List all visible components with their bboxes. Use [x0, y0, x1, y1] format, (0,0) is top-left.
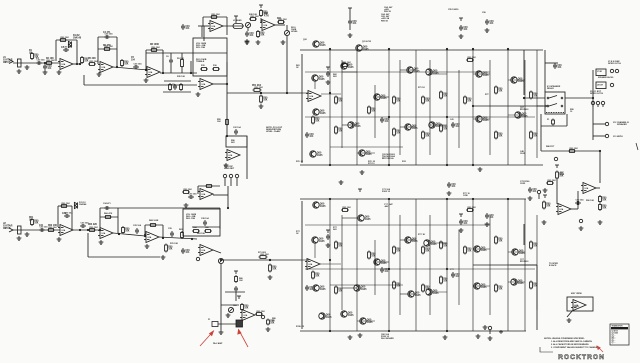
transistor Q12 [475, 116, 482, 122]
capacitor C28 [203, 220, 207, 226]
wire U7A fb top [58, 205, 72, 207]
wire U7B fb mid [100, 216, 118, 218]
wire cluster [221, 304, 239, 306]
resistor R62b [47, 229, 55, 232]
wire jog A11 [375, 96, 389, 98]
svg-text:U1A: U1A [244, 314, 248, 317]
svg-text:U1A: U1A [62, 229, 66, 232]
svg-text:C00 104: C00 104 [134, 62, 143, 65]
op-amp U4 driver A [306, 91, 321, 102]
power +15V [326, 230, 330, 233]
svg-text:R0010K: R0010K [168, 247, 173, 251]
svg-text:KEY VIEW: KEY VIEW [571, 293, 583, 295]
key view box [567, 297, 593, 311]
wire fx right vert [246, 136, 248, 179]
transistor Q13 [515, 112, 522, 118]
svg-text:ROCKTRON: ROCKTRON [558, 354, 604, 361]
svg-text:R71 1K: R71 1K [418, 87, 425, 89]
svg-text:U1A: U1A [202, 193, 206, 196]
svg-text:R0010K: R0010K [533, 94, 538, 98]
transistor Q18 [357, 215, 364, 221]
resistor R41 [552, 119, 555, 126]
svg-text:U1A: U1A [102, 232, 106, 235]
wire feedback bus top [146, 52, 227, 54]
node [227, 207, 229, 209]
svg-text:R2 10K: R2 10K [46, 58, 54, 60]
node [388, 198, 390, 200]
svg-text:Q15 MJ15003Q16 MJ15004MOTOROLA: Q15 MJ15003Q16 MJ15004MOTOROLA [382, 154, 396, 160]
jack J12 [229, 174, 232, 177]
wire U1B feedback left [97, 37, 99, 64]
wire monitor top [541, 150, 600, 152]
node [472, 198, 474, 200]
wire U2A feedback left [145, 50, 147, 69]
transistor Q1 [312, 41, 319, 47]
resistor R84 [393, 246, 396, 255]
wire jog B3 [430, 242, 447, 244]
wire drive A to power amp [227, 92, 302, 94]
resistor R37 [530, 131, 533, 140]
svg-text:U1A: U1A [264, 24, 268, 27]
wire drive B to power amp [221, 259, 302, 261]
resistor R30 [422, 131, 425, 140]
node [79, 229, 81, 231]
resistor R93 [530, 241, 533, 250]
capacitor C24b [104, 206, 110, 210]
svg-text:R0010K: R0010K [338, 129, 343, 133]
wire U1A out [73, 63, 81, 65]
wire to J12 [593, 123, 605, 125]
op-amp U6B [198, 189, 213, 200]
resistor R25 [335, 126, 338, 135]
plus mark [499, 330, 503, 334]
wire C6 top [170, 53, 172, 58]
jack J5 [596, 101, 599, 104]
jack J2 [615, 69, 618, 72]
svg-text:3. COMPONENT VALUES SUBJECT TO: 3. COMPONENT VALUES SUBJECT TO CHANGE [551, 346, 598, 349]
ground [326, 243, 331, 247]
wire jog B6 [342, 287, 357, 289]
node [446, 116, 448, 118]
capacitor C3 [63, 48, 69, 52]
transistor Q2 [355, 45, 362, 51]
transistor Q6 [475, 71, 482, 77]
wire R9 bot [181, 67, 183, 73]
wire jog A12 [357, 152, 375, 154]
transistor Q32 [319, 313, 326, 319]
wire vertical B x508 [507, 199, 509, 331]
capacitor C42 [326, 71, 330, 77]
capacitor C43 [326, 234, 330, 240]
svg-text:R90 10K: R90 10K [586, 200, 594, 202]
node [523, 97, 525, 99]
pot master [284, 30, 289, 35]
ground [99, 240, 104, 244]
node [118, 233, 120, 235]
ground [528, 196, 533, 200]
capacitor C11 [305, 132, 309, 138]
resistor R5 [88, 63, 96, 66]
title block line [540, 347, 553, 352]
wire input B [13, 229, 60, 231]
node [144, 235, 146, 237]
resistor R34 [495, 86, 498, 95]
capacitor C21 [39, 228, 45, 232]
svg-text:R0010K: R0010K [371, 254, 376, 258]
ground [281, 40, 286, 44]
op-amp U1B [98, 62, 113, 73]
wire remote stub2 [230, 178, 232, 186]
svg-text:R64 22K: R64 22K [88, 223, 97, 226]
resistor R83 [368, 251, 371, 260]
svg-text:R0010K: R0010K [125, 229, 130, 233]
IC box detail (red arrow target) [236, 320, 243, 327]
op-amp U7B [98, 228, 113, 239]
svg-text:R6 47K: R6 47K [103, 44, 111, 47]
power +15V [543, 195, 547, 198]
wire B bus right vert [219, 208, 221, 229]
node [388, 116, 390, 118]
wire vertical A x375 [374, 85, 376, 138]
wire U9A out [213, 250, 221, 253]
wire tone lower2 [163, 91, 191, 93]
svg-text:J7-8 8 OHMSPKR OUT A: J7-8 8 OHMSPKR OUT A [608, 61, 621, 65]
svg-text:R62 10K: R62 10K [48, 225, 57, 227]
svg-text:U1A: U1A [229, 154, 233, 157]
red annotation arrow 1 [200, 331, 214, 346]
svg-text:R0010K: R0010K [260, 33, 265, 37]
svg-text:U1A: U1A [102, 66, 106, 69]
capacitor C14 [485, 19, 489, 25]
resistor R48 [599, 203, 602, 211]
wire U8B fb left [144, 225, 146, 234]
wire jog A10 [508, 114, 525, 116]
capacitor C25 [135, 228, 139, 234]
fx box [226, 136, 247, 147]
svg-text:R00 10K: R00 10K [62, 203, 71, 205]
resistor R58 [205, 185, 213, 188]
capacitor C13 [459, 25, 463, 31]
svg-text:C22 104: C22 104 [233, 126, 241, 129]
capacitor C35 [485, 213, 489, 219]
wire A mid1 [305, 71, 490, 73]
svg-text:Q3 ...: Q3 ... [612, 334, 616, 336]
wire feedback return vert [83, 75, 85, 85]
resistor R47 [599, 195, 602, 203]
pot bias [228, 307, 233, 312]
wire C6 bot [170, 64, 172, 73]
svg-text:C25 104: C25 104 [133, 224, 142, 227]
ground [483, 325, 488, 329]
node [145, 69, 147, 71]
resistor R64 [88, 229, 96, 232]
node [190, 72, 192, 74]
capacitor C6 [169, 58, 173, 64]
wire remote stub3 [236, 178, 238, 186]
wire to U5A in [556, 178, 558, 204]
transistor Q23 [511, 249, 518, 255]
transistor Q5 [426, 69, 433, 75]
svg-text:C71 104R105 10: C71 104R105 10 [382, 188, 391, 193]
ground [57, 70, 62, 74]
capacitor C44 [234, 286, 238, 292]
svg-text:R0010K: R0010K [244, 306, 249, 310]
jack J4 [591, 101, 594, 104]
transistor Q9 [348, 122, 355, 128]
transistor Q12c [340, 311, 347, 317]
jack J16 [488, 326, 491, 329]
svg-text:C00 104: C00 104 [64, 45, 73, 48]
capacitor C4 [104, 35, 110, 39]
wire Q to U11 [314, 243, 316, 258]
wire U7B fb left [99, 208, 101, 230]
jack TP B [537, 190, 540, 193]
node [472, 164, 474, 166]
resistor R29 [422, 96, 425, 105]
resistor R95 [312, 271, 315, 280]
op-amp U8B [144, 232, 159, 243]
ground [443, 335, 448, 339]
jack J13 [235, 174, 238, 177]
svg-text:R00 10K: R00 10K [90, 227, 99, 229]
node [446, 164, 448, 166]
wire U2A out [160, 72, 197, 74]
svg-text:J7 8R: J7 8R [597, 71, 602, 73]
wire vertical A x473 [472, 50, 474, 165]
svg-text:R38 10K: R38 10K [249, 14, 257, 16]
svg-text:R0010K: R0010K [467, 99, 472, 103]
svg-text:R0010K: R0010K [371, 109, 376, 113]
transistor Q3 [311, 75, 318, 81]
svg-text:U1A: U1A [149, 71, 153, 74]
ground [43, 70, 48, 74]
wire relay to jacks [565, 97, 593, 99]
wire vertical B x430 [429, 215, 431, 315]
wire vertical A x537 [536, 50, 538, 158]
wire U7B out [113, 233, 145, 236]
op-amp U5A [556, 204, 571, 215]
svg-text:2. ALL CAPACITORS IN MICROFARA: 2. ALL CAPACITORS IN MICROFARADS [551, 343, 589, 346]
wire -rail A [300, 164, 543, 166]
pot B out [218, 258, 223, 263]
wire vertical A x459 [458, 70, 460, 148]
wire U3A out [223, 25, 244, 27]
svg-text:R0010K: R0010K [425, 287, 430, 291]
wire U3B out [275, 24, 285, 26]
capacitor C17 [234, 129, 238, 135]
svg-text:U1A: U1A [310, 95, 314, 98]
svg-text:TRANSISTOR: TRANSISTOR [612, 324, 624, 327]
wire jog A1 [342, 71, 357, 73]
svg-text:R0010K: R0010K [467, 249, 472, 253]
svg-text:R0010K: R0010K [533, 134, 538, 138]
capacitor C2 [43, 64, 47, 70]
svg-text:R00 10K: R00 10K [468, 207, 477, 209]
ground [543, 188, 548, 192]
node [329, 164, 331, 166]
resistor R40t [257, 30, 260, 38]
resistor R81 [335, 241, 338, 250]
wire jog B7 [400, 293, 416, 295]
resistor R20 [260, 9, 263, 17]
wire vertical A x400 [399, 60, 401, 155]
wire rail to relay [544, 50, 546, 92]
jack box ext out [596, 82, 606, 89]
wire Q to U4 [314, 81, 316, 89]
resistor R28 [393, 128, 396, 137]
svg-text:Q11 A733: Q11 A733 [362, 40, 372, 43]
parts table box [610, 324, 629, 345]
svg-text:U1A: U1A [309, 263, 313, 266]
red annotation arrow notes [597, 346, 603, 352]
ferrite bead L1 [233, 24, 243, 29]
resistor R76 [267, 319, 270, 326]
wire bus A down [226, 62, 228, 93]
resistor R82 [335, 286, 338, 295]
svg-text:R0010K: R0010K [315, 274, 320, 278]
wire U1B feedback right [116, 37, 118, 67]
ground [360, 170, 365, 174]
wire C12 bot [349, 25, 351, 30]
transistor Q14 [309, 151, 316, 157]
wire U2A feedback top [146, 49, 163, 51]
ground [598, 220, 603, 224]
ground [17, 69, 22, 73]
jack J14 [196, 257, 199, 260]
svg-text:SPEAKER JACKS: SPEAKER JACKS [598, 76, 614, 79]
wire vertical B x400 [399, 215, 401, 315]
resistor R72 [269, 264, 272, 273]
node [269, 259, 271, 261]
svg-text:R?? 1K: R?? 1K [418, 234, 426, 236]
wire vertical B x447 [446, 199, 448, 331]
svg-text:R00 10K: R00 10K [257, 311, 266, 313]
wire -rail B [300, 330, 526, 332]
power +15V [459, 214, 463, 217]
resistor R55 [226, 118, 229, 126]
wire U1A feedback top [56, 39, 77, 41]
svg-text:C23: C23 [62, 213, 67, 215]
wire node treble [190, 61, 192, 73]
op-amp U2B [198, 79, 213, 90]
transistor Q21 [424, 240, 431, 246]
resistor R85b [393, 281, 396, 290]
resistor R52 [192, 230, 200, 233]
wire R20 to U3B [260, 18, 262, 22]
wire jog A4 [473, 73, 490, 75]
diode D11 [74, 202, 77, 205]
svg-text:R0010K: R0010K [425, 134, 430, 138]
svg-text:R0010K: R0010K [498, 287, 503, 291]
power +15V [326, 67, 330, 70]
resistor R61 [31, 218, 34, 226]
wire U8B out [159, 237, 197, 239]
ground [488, 336, 493, 340]
svg-text:U1A: U1A [202, 249, 206, 252]
wire vertical B x342 [341, 215, 343, 310]
node [226, 83, 228, 85]
ground [485, 222, 490, 226]
svg-text:R00 10K: R00 10K [548, 180, 557, 182]
resistor R50 [182, 191, 190, 194]
svg-text:U1A: U1A [212, 25, 216, 28]
wire box to U3A input [203, 26, 205, 41]
wire jog A9 [473, 118, 490, 120]
wire key stub [567, 310, 573, 317]
svg-text:R00 10K: R00 10K [251, 16, 260, 18]
resistor R12 [169, 83, 172, 91]
svg-text:C24 471: C24 471 [103, 202, 111, 205]
ground [339, 180, 344, 184]
wire U7A fb left [57, 206, 59, 227]
resistor R17 [210, 16, 218, 19]
node [118, 233, 120, 235]
svg-text:R00 10K: R00 10K [212, 14, 221, 16]
wire remote stub1 [224, 178, 226, 186]
wire vertical A x342 [341, 60, 343, 148]
transistor Q20 [404, 237, 411, 243]
transistor Q26 [407, 291, 414, 297]
jack J9 [554, 157, 557, 160]
resistor R96 [341, 209, 349, 212]
resistor R4 [81, 56, 84, 64]
tone network box channel B [183, 209, 220, 236]
svg-text:NOTES: UNLESS OTHERWISE SPECIF: NOTES: UNLESS OTHERWISE SPECIFIED: [544, 338, 585, 340]
svg-text:U1A: U1A [560, 208, 564, 211]
node [44, 62, 46, 64]
wire vertical A x447 [446, 50, 448, 165]
svg-text:U1A: U1A [148, 236, 152, 239]
node [592, 97, 594, 99]
wire vertical A x525 [524, 60, 526, 165]
resistor R2 [45, 62, 53, 65]
wire A mid3 [330, 146, 403, 148]
svg-text:R0010K: R0010K [533, 244, 538, 248]
op-amp U9A [198, 245, 213, 256]
svg-text:R0010K: R0010K [396, 99, 401, 103]
node [162, 237, 164, 239]
wire U1A feedback right [76, 40, 78, 64]
wire vertical B x389 [388, 199, 390, 331]
wire U1B out [113, 67, 148, 70]
svg-text:C28 104: C28 104 [201, 217, 209, 220]
capacitor C10 [451, 122, 455, 128]
resistor R97 [466, 209, 474, 212]
wire jack stub [489, 330, 491, 334]
node [269, 259, 271, 261]
wire U1B feedback top [98, 36, 117, 38]
wire jog B1 [342, 217, 357, 219]
wire B mid3 [330, 284, 403, 286]
power +15V [459, 18, 463, 21]
resistor R71b [259, 256, 268, 259]
resistor R73 [241, 303, 244, 311]
capacitor C41b [528, 187, 532, 193]
svg-text:R00 10K: R00 10K [49, 227, 58, 229]
resistor R15 [200, 68, 208, 71]
resistor R1 [31, 52, 34, 60]
svg-text:C21: C21 [39, 225, 44, 227]
node [191, 238, 193, 240]
capacitor C1 [36, 61, 42, 65]
capacitor C40 [447, 182, 451, 188]
power +15V [348, 8, 352, 11]
wire U3A feedback left [202, 17, 204, 26]
wire left edge B [301, 201, 303, 329]
resistor R36 [530, 91, 533, 100]
wire U8B fb top [145, 224, 163, 226]
node [472, 48, 474, 50]
